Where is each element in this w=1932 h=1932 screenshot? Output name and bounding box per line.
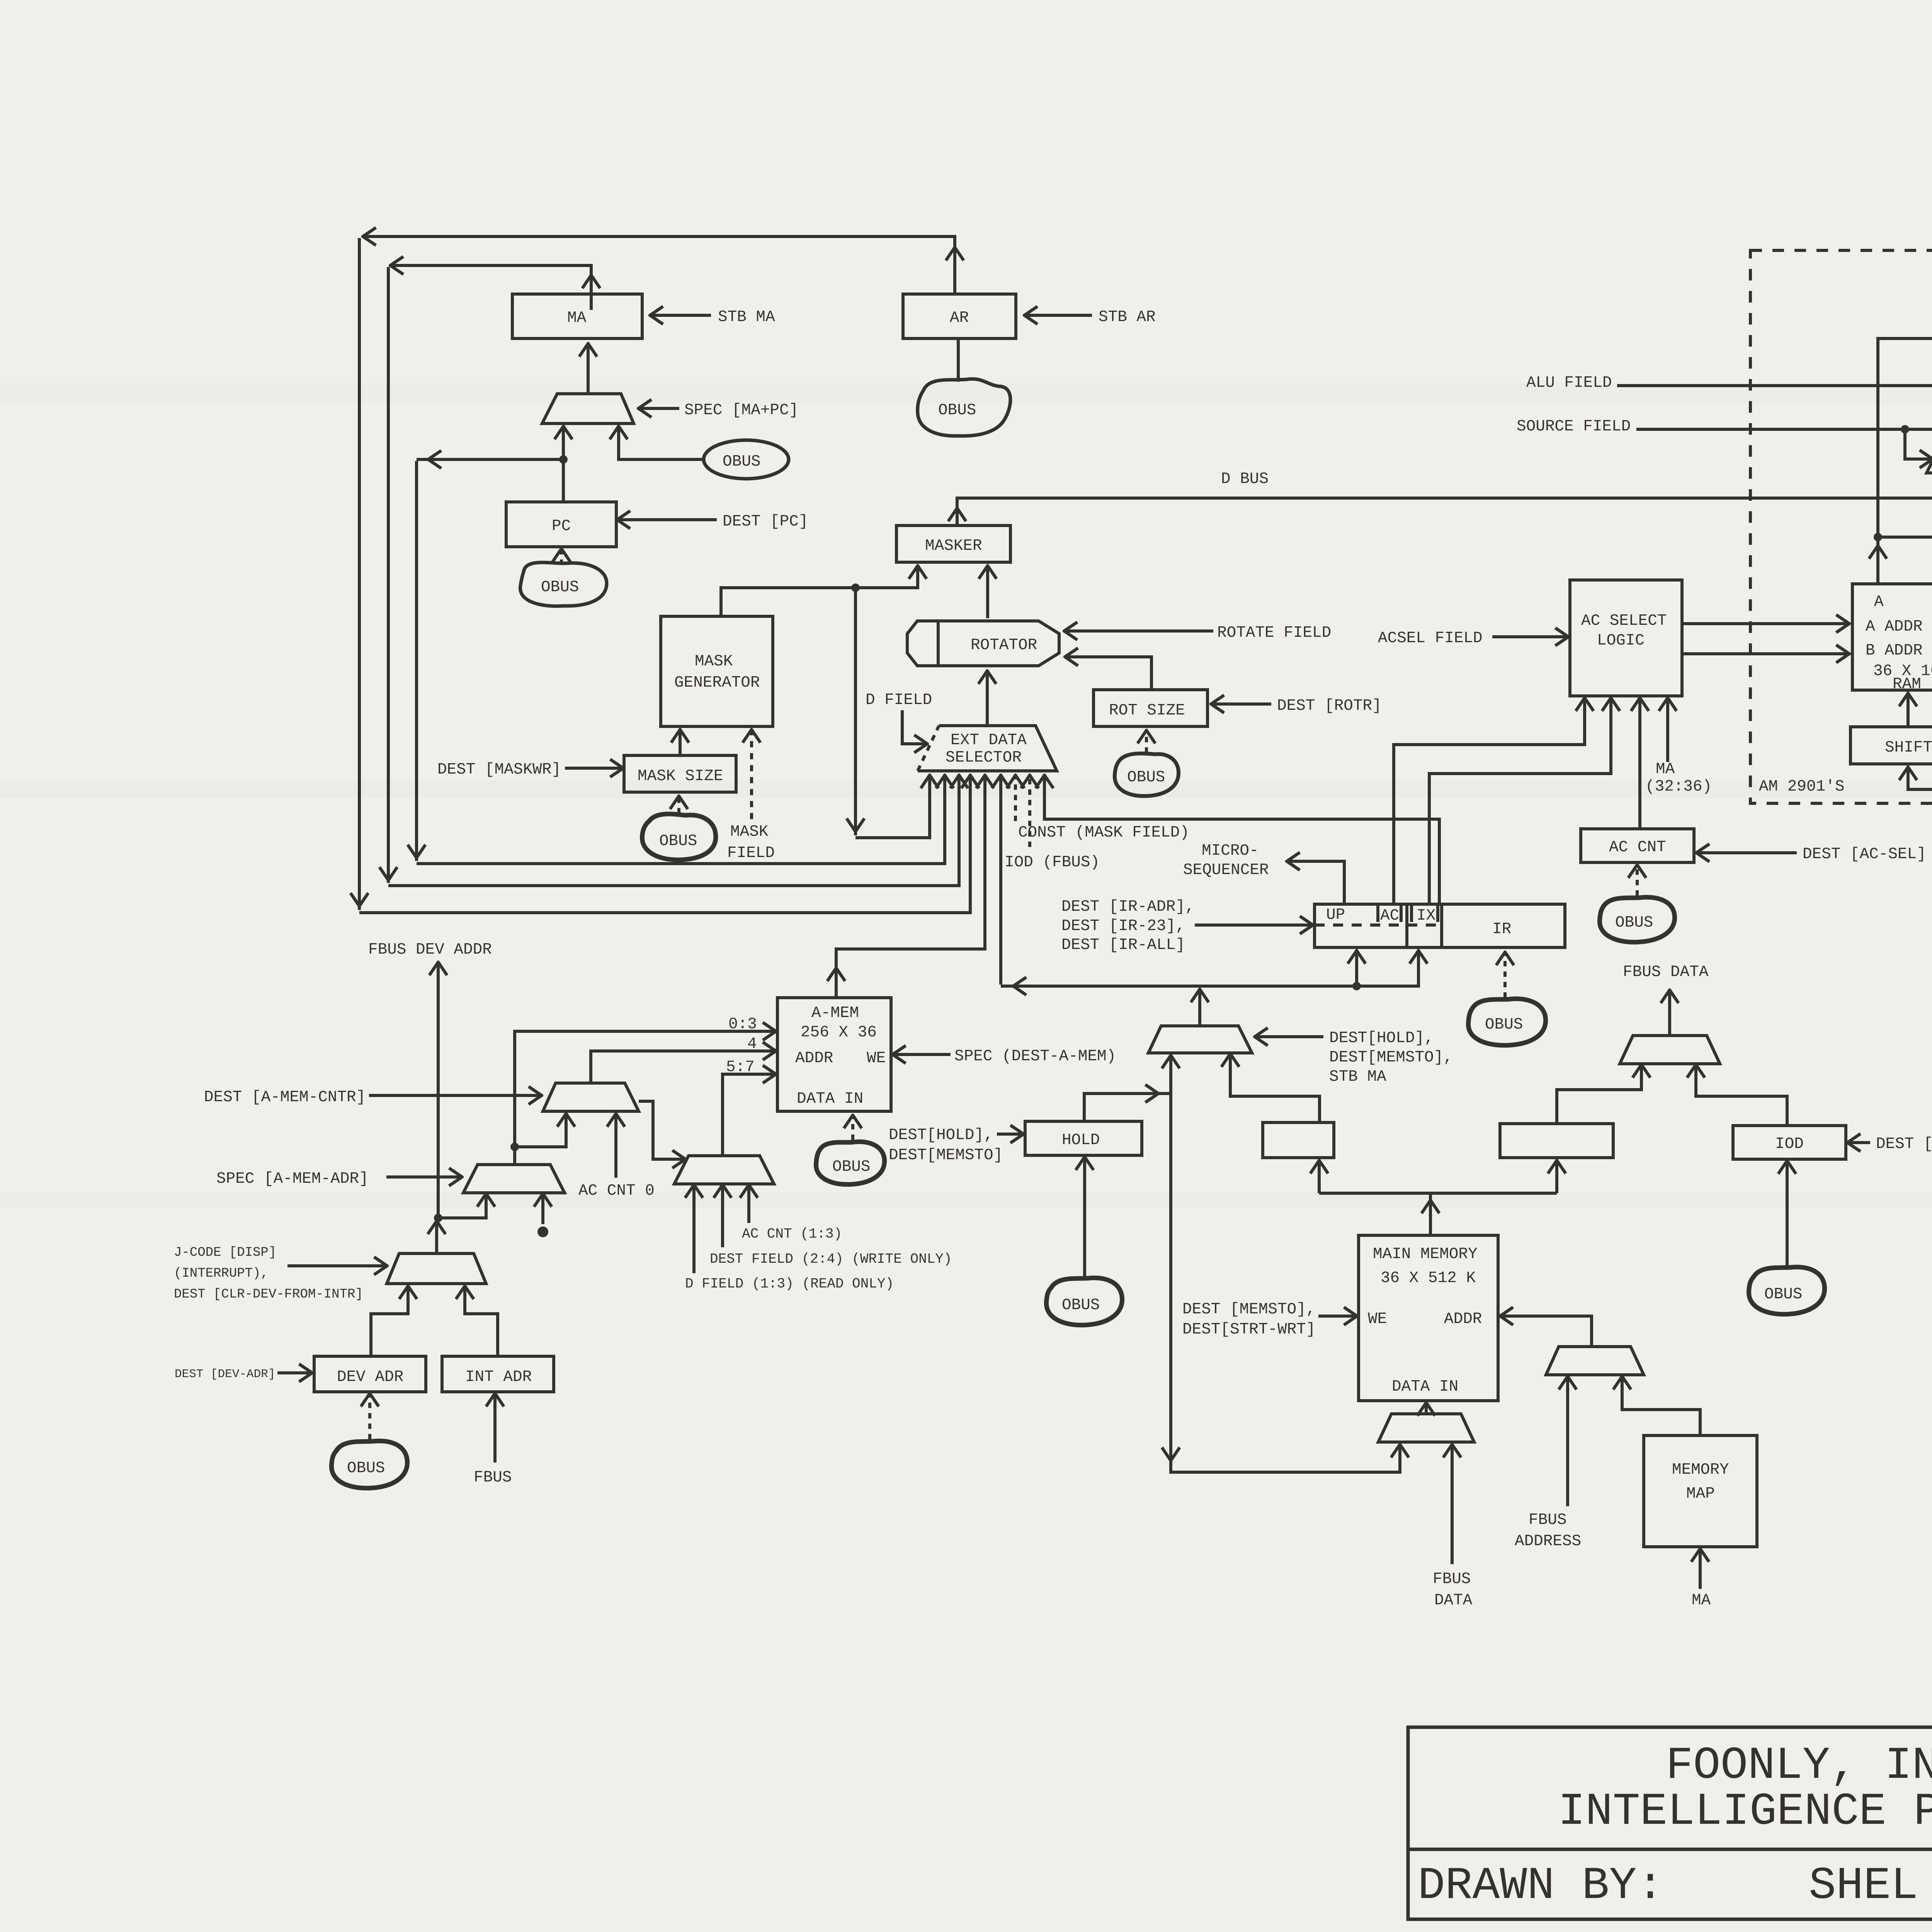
- svg-text:A ADDR: A ADDR: [1866, 618, 1923, 636]
- svg-text:IOD: IOD: [1775, 1135, 1804, 1153]
- register IOD: [1733, 1126, 1846, 1159]
- svg-text:OBUS: OBUS: [832, 1158, 870, 1176]
- wire DEST [AC-SEL]: [1697, 845, 1926, 863]
- wire DEST HOLD MEMSTO STB MA select: [1255, 1029, 1453, 1086]
- wire ROTATOR to MASKER input 2: [986, 566, 989, 618]
- wire AC CNT to AC SELECT LOGIC: [1638, 699, 1641, 829]
- svg-text:DEST [IR-ALL]: DEST [IR-ALL]: [1061, 936, 1185, 954]
- svg-text:MICRO-: MICRO-: [1202, 842, 1259, 860]
- svg-text:B ADDR: B ADDR: [1866, 642, 1923, 660]
- wire OBUS to A-MEM DATA IN dashed: [851, 1116, 854, 1140]
- svg-text:IR: IR: [1492, 920, 1511, 938]
- wire MASK SIZE to MASK GENERATOR: [679, 730, 682, 755]
- register HOLD: [1025, 1121, 1142, 1155]
- wire FBUS ADDRESS stub: [1515, 1377, 1581, 1550]
- wire AR output to top loop: [364, 236, 964, 294]
- register AR: [903, 294, 1016, 338]
- wire OBUS to AC CNT dashed: [1636, 866, 1639, 896]
- svg-text:DATA IN: DATA IN: [1392, 1378, 1458, 1396]
- register MA: [512, 294, 642, 338]
- register PC: [506, 502, 616, 547]
- mux EXT DATA SELECTOR: [918, 726, 1057, 771]
- svg-text:SEQUENCER: SEQUENCER: [1183, 861, 1269, 879]
- node zero constant muxB: [537, 1194, 548, 1237]
- register INT ADR: [442, 1356, 554, 1392]
- wire SOURCE FIELD: [1517, 418, 1932, 459]
- register memory data box1: [1263, 1122, 1334, 1158]
- svg-text:256 X 36: 256 X 36: [801, 1024, 877, 1041]
- boundary AM 2901 dashed box: [1750, 250, 1932, 803]
- svg-text:SPEC [MA+PC]: SPEC [MA+PC]: [684, 401, 798, 419]
- svg-text:AR: AR: [950, 309, 969, 327]
- wire DEST [IOD]: [1848, 1135, 1932, 1153]
- wire MAIN MEMORY output tee: [1319, 1161, 1557, 1235]
- wire PC to mux input 1: [559, 427, 568, 502]
- svg-text:D FIELD: D FIELD: [866, 691, 932, 709]
- svg-text:AC CNT: AC CNT: [1609, 838, 1666, 856]
- svg-text:OBUS: OBUS: [1764, 1286, 1802, 1303]
- svg-text:OBUS: OBUS: [347, 1459, 385, 1477]
- svg-text:CONST (MASK FIELD): CONST (MASK FIELD): [1018, 824, 1189, 842]
- svg-text:FBUS DEV ADDR: FBUS DEV ADDR: [368, 941, 492, 959]
- svg-text:INTELLIGENCE PROJECT: INTELLIGENCE PROJECT: [1558, 1786, 1932, 1838]
- wire box2 to muxF input1: [1557, 1065, 1641, 1124]
- svg-text:A: A: [1874, 593, 1884, 611]
- svg-text:DEST[MEMSTO],: DEST[MEMSTO],: [1329, 1049, 1453, 1066]
- wire FBUS to INT ADR: [474, 1394, 512, 1486]
- register SHIFT left: [1850, 727, 1932, 764]
- memory A-MEM 256x36: [777, 998, 891, 1111]
- svg-text:OBUS: OBUS: [1615, 914, 1653, 932]
- svg-text:DEST [MEMSTO],: DEST [MEMSTO],: [1182, 1301, 1315, 1318]
- node OBUS blob under A-MEM: [816, 1142, 884, 1185]
- wire ROTATE FIELD: [1065, 624, 1331, 642]
- wire MASKER output to D BUS: [948, 470, 1932, 526]
- wire IR IX field to AC SELECT LOGIC: [1429, 699, 1611, 904]
- wire SHIFT to RAM: [1906, 694, 1910, 727]
- wire EXT DATA SELECTOR to ROTATOR: [986, 672, 989, 725]
- svg-text:LOGIC: LOGIC: [1597, 632, 1645, 650]
- wire MA into MEMORY MAP: [1692, 1549, 1711, 1609]
- wire muxB input1 from FBUS DEV ADDR bus: [434, 1194, 486, 1222]
- wire DEST [PC]: [618, 513, 808, 531]
- svg-text:ACSEL FIELD: ACSEL FIELD: [1378, 629, 1483, 647]
- wire D FIELD drop to bus 1: [847, 588, 930, 838]
- svg-text:(INTERRUPT),: (INTERRUPT),: [174, 1266, 269, 1281]
- svg-text:DEST [A-MEM-CNTR]: DEST [A-MEM-CNTR]: [204, 1088, 366, 1106]
- mux H memory data in mux: [1378, 1403, 1474, 1442]
- wire SPEC (DEST-A-MEM): [893, 1048, 1116, 1065]
- svg-text:MASK SIZE: MASK SIZE: [638, 767, 723, 785]
- wire DEV ADR to muxD: [371, 1287, 408, 1356]
- svg-text:36 X 512 K: 36 X 512 K: [1381, 1269, 1476, 1287]
- svg-text:ADDR: ADDR: [795, 1049, 833, 1067]
- svg-text:DRAWN BY:: DRAWN BY:: [1418, 1861, 1664, 1912]
- svg-text:DATA: DATA: [1434, 1592, 1473, 1609]
- svg-text:0:3: 0:3: [728, 1015, 757, 1033]
- svg-text:D BUS: D BUS: [1221, 470, 1269, 488]
- node OBUS blob under HOLD: [1046, 1278, 1122, 1325]
- mux R source mux: [1927, 413, 1932, 473]
- svg-text:OBUS: OBUS: [1127, 769, 1165, 786]
- wire IOD to muxF input2: [1696, 1065, 1787, 1126]
- register IR: [1315, 904, 1565, 947]
- svg-text:DEST [IR-23],: DEST [IR-23],: [1061, 917, 1185, 935]
- wire OBUS to DEV ADR dashed: [368, 1394, 371, 1439]
- svg-text:DEST [AC-SEL]: DEST [AC-SEL]: [1803, 845, 1926, 863]
- register MASK SIZE: [624, 755, 736, 792]
- svg-text:OBUS: OBUS: [659, 832, 697, 850]
- wire DEST MEMSTO write enable: [1182, 1301, 1356, 1338]
- svg-text:AC SELECT: AC SELECT: [1581, 612, 1667, 630]
- svg-text:FOONLY, INC.: FOONLY, INC.: [1666, 1740, 1932, 1792]
- svg-text:OBUS: OBUS: [1062, 1296, 1100, 1314]
- svg-text:DEV ADR: DEV ADR: [337, 1368, 403, 1386]
- svg-text:5:7: 5:7: [726, 1058, 755, 1076]
- wire OBUS to ROT SIZE dashed: [1145, 731, 1148, 753]
- wire A bus horizontal: [1878, 536, 1932, 539]
- wire MA (32:36) stub: [1645, 699, 1712, 796]
- register MASKER: [896, 526, 1010, 562]
- svg-text:(32:36): (32:36): [1645, 778, 1712, 796]
- block AC SELECT LOGIC: [1570, 580, 1682, 696]
- title text DRAWN BY: [1418, 1861, 1664, 1912]
- mux F FBUS data mux: [1620, 963, 1720, 1064]
- svg-text:DEST[HOLD],: DEST[HOLD],: [1329, 1029, 1434, 1047]
- svg-text:FBUS: FBUS: [1433, 1570, 1471, 1588]
- svg-text:OBUS: OBUS: [723, 453, 760, 471]
- wire IR IX field to selector input 9: [1044, 776, 1439, 904]
- svg-text:WE: WE: [1368, 1310, 1387, 1328]
- svg-text:WE: WE: [867, 1049, 886, 1067]
- svg-text:DEST[MEMSTO]: DEST[MEMSTO]: [889, 1146, 1003, 1164]
- mux A-MEM 5:7 mux: [674, 1156, 774, 1184]
- wire left bus PC feedback down: [408, 461, 945, 864]
- wire AC CNT 0 stub: [578, 1114, 655, 1200]
- node OBUS blob under AR: [918, 338, 1010, 436]
- svg-text:SOURCE FIELD: SOURCE FIELD: [1517, 418, 1631, 435]
- wire STB AR: [1025, 308, 1156, 326]
- svg-text:FIELD: FIELD: [727, 844, 775, 862]
- svg-text:DEST FIELD (2:4) (WRITE ONLY): DEST FIELD (2:4) (WRITE ONLY): [710, 1251, 952, 1267]
- wire A-MEM output to selector input 5: [827, 776, 985, 998]
- wire muxG to ADDR: [1501, 1316, 1592, 1347]
- wire CONST stub dashed: [1015, 776, 1189, 842]
- mux G memory address mux: [1546, 1347, 1644, 1375]
- svg-text:MAIN MEMORY: MAIN MEMORY: [1373, 1245, 1478, 1263]
- svg-text:SHEL KAPHAN: SHEL KAPHAN: [1809, 1861, 1932, 1912]
- wire MASK GENERATOR to MASKER input 1: [721, 566, 918, 616]
- register AC CNT: [1581, 829, 1694, 862]
- node OBUS blob under DEV ADR: [332, 1441, 407, 1488]
- svg-text:ROTATOR: ROTATOR: [971, 636, 1037, 654]
- wire IR AC field to AC SELECT LOGIC: [1394, 699, 1585, 904]
- svg-text:DEST [ROTR]: DEST [ROTR]: [1277, 697, 1382, 715]
- svg-text:D FIELD (1:3) (READ ONLY): D FIELD (1:3) (READ ONLY): [685, 1276, 894, 1292]
- svg-text:GENERATOR: GENERATOR: [674, 674, 760, 692]
- wire PC tap to left bus: [417, 451, 563, 468]
- svg-text:ADDRESS: ADDRESS: [1515, 1532, 1581, 1550]
- wire DEST FIELD (2:4) stub: [710, 1185, 952, 1267]
- wire muxA select to muxC: [639, 1101, 685, 1159]
- svg-text:DEST [PC]: DEST [PC]: [723, 513, 808, 531]
- svg-text:DEST [IR-ADR],: DEST [IR-ADR],: [1061, 898, 1194, 916]
- wire OBUS to MASK SIZE dashed: [677, 797, 680, 813]
- wire STB MA: [651, 308, 775, 326]
- memory MAIN MEMORY: [1359, 1235, 1498, 1401]
- svg-text:MA: MA: [1656, 760, 1675, 778]
- memory RAM 36x16: [1852, 584, 1932, 693]
- svg-text:ROT SIZE: ROT SIZE: [1109, 702, 1185, 719]
- wire HOLD tap down to muxH: [1162, 1094, 1400, 1472]
- svg-text:INT ADR: INT ADR: [465, 1368, 532, 1386]
- svg-text:IX: IX: [1417, 907, 1435, 925]
- svg-text:MA: MA: [1692, 1592, 1711, 1609]
- svg-text:PC: PC: [552, 517, 571, 535]
- wire result bus to IR inputs: [1001, 951, 1418, 990]
- svg-text:IOD (FBUS): IOD (FBUS): [1005, 854, 1100, 871]
- wire selector input 6 from result bus: [1001, 776, 1026, 995]
- svg-text:ALU FIELD: ALU FIELD: [1526, 374, 1612, 392]
- title block border: [1408, 1727, 1932, 1919]
- wire RAM A riser lower: [1869, 533, 1887, 584]
- register ROT SIZE: [1094, 690, 1207, 726]
- mux SPEC MA+PC: [542, 394, 634, 423]
- wire left bus AR feedback down: [350, 238, 970, 913]
- wire RAM A to output mux: [1878, 311, 1932, 537]
- wire ROT SIZE to ROTATOR: [1066, 657, 1151, 690]
- wire J-CODE select: [174, 1245, 386, 1302]
- svg-text:OBUS: OBUS: [541, 578, 579, 596]
- svg-text:A-MEM: A-MEM: [811, 1004, 859, 1022]
- wire FBUS DEV ADDR: [368, 941, 492, 1218]
- wire FBUS DATA stub into muxH: [1433, 1445, 1473, 1609]
- node OBUS ellipse at MA mux: [704, 440, 789, 479]
- svg-text:OBUS: OBUS: [938, 401, 976, 419]
- svg-text:RAM: RAM: [1893, 675, 1921, 693]
- svg-text:DEST[HOLD],: DEST[HOLD],: [889, 1126, 993, 1144]
- wire left bus MA feedback down: [379, 267, 959, 886]
- node OBUS blob under ROT SIZE: [1115, 753, 1179, 796]
- register DEV ADR: [314, 1356, 426, 1392]
- wire ALU FIELD: [1526, 374, 1932, 392]
- mux A-MEM write counter mux: [543, 1083, 639, 1111]
- svg-text:DEST[STRT-WRT]: DEST[STRT-WRT]: [1182, 1321, 1315, 1338]
- svg-text:DEST [MASKWR]: DEST [MASKWR]: [437, 761, 561, 779]
- wire SPEC [MA+PC]: [639, 401, 798, 419]
- title text SHEL KAPHAN: [1809, 1861, 1932, 1912]
- wire DEST [MASKWR]: [437, 761, 622, 779]
- wire B address to RAM: [1682, 652, 1849, 655]
- svg-text:STB MA: STB MA: [1329, 1068, 1386, 1086]
- block ROTATOR: [907, 621, 1059, 666]
- wire muxB out to muxA input1: [515, 1114, 566, 1147]
- wire MEMORY MAP to muxG: [1622, 1377, 1700, 1435]
- wire IOD stub dashed: [1005, 776, 1100, 871]
- block MEMORY MAP: [1644, 1435, 1757, 1547]
- svg-text:AC CNT (1:3): AC CNT (1:3): [742, 1226, 842, 1242]
- svg-text:STB AR: STB AR: [1099, 308, 1156, 326]
- wire DEST [ROTR]: [1212, 697, 1382, 715]
- svg-text:OBUS: OBUS: [1485, 1016, 1523, 1034]
- wire OBUS to PC dashed: [560, 549, 563, 565]
- svg-text:HOLD: HOLD: [1062, 1131, 1100, 1149]
- svg-text:STB MA: STB MA: [718, 308, 775, 326]
- title text FOONLY INC: [1666, 1740, 1932, 1792]
- wire OBUS to IR dashed: [1503, 953, 1507, 998]
- svg-text:SELECTOR: SELECTOR: [946, 749, 1022, 767]
- node OBUS blob under MASK SIZE: [642, 814, 716, 860]
- wire D FIELD select: [866, 691, 932, 744]
- svg-text:4: 4: [747, 1035, 757, 1053]
- wire HOLD to muxE input1: [1084, 1056, 1171, 1121]
- node OBUS blob under AC CNT: [1600, 897, 1675, 942]
- svg-text:AC: AC: [1380, 907, 1399, 925]
- svg-text:MASKER: MASKER: [925, 537, 982, 555]
- svg-text:FBUS DATA: FBUS DATA: [1623, 963, 1709, 981]
- label DEST HOLD MEMSTO left: [889, 1126, 1003, 1164]
- wire DEST [A-MEM-CNTR]: [204, 1088, 541, 1106]
- block MASK GENERATOR: [661, 616, 773, 726]
- wire OBUS to IOD: [1786, 1162, 1789, 1266]
- mux E store mux: [1148, 990, 1252, 1053]
- mux A-MEM address mux: [463, 1165, 565, 1193]
- wire INT ADR to muxD: [465, 1287, 498, 1356]
- svg-text:DEST [IOD]: DEST [IOD]: [1876, 1135, 1932, 1153]
- svg-text:MA: MA: [567, 309, 587, 327]
- svg-text:MEMORY: MEMORY: [1672, 1461, 1729, 1479]
- wire D FIELD (1:3) stub: [685, 1185, 894, 1292]
- wire mux to MA: [587, 344, 590, 394]
- svg-text:SHIFT: SHIFT: [1885, 739, 1932, 757]
- wire DEST [DEV-ADR]: [175, 1367, 311, 1381]
- node OBUS blob under IR: [1468, 999, 1546, 1046]
- register memory data box2: [1500, 1124, 1613, 1158]
- wire OBUS to HOLD: [1083, 1158, 1086, 1277]
- svg-text:SPEC (DEST-A-MEM): SPEC (DEST-A-MEM): [954, 1048, 1116, 1065]
- svg-text:DEST [CLR-DEV-FROM-INTR]: DEST [CLR-DEV-FROM-INTR]: [174, 1287, 363, 1302]
- wire MICRO-SEQUENCER from IR UP field: [1183, 842, 1344, 904]
- mux device address mux: [387, 1222, 486, 1284]
- svg-text:MASK: MASK: [730, 823, 769, 841]
- svg-text:DATA IN: DATA IN: [797, 1090, 863, 1108]
- node OBUS blob under IOD: [1749, 1267, 1825, 1314]
- title text INTELLIGENCE PROJECT: [1558, 1786, 1932, 1838]
- svg-text:FBUS: FBUS: [1529, 1511, 1566, 1529]
- svg-text:AM 2901'S: AM 2901'S: [1759, 778, 1844, 796]
- wire MASK FIELD stub: [727, 730, 775, 862]
- wire A address to RAM: [1682, 622, 1849, 625]
- wire ACSEL FIELD: [1378, 629, 1568, 647]
- wire SPEC [A-MEM-ADR]: [216, 1170, 461, 1188]
- wire DEST IR fields: [1061, 898, 1312, 954]
- wire OBUS to mux input 2: [619, 427, 704, 459]
- node OBUS blob under PC: [520, 563, 607, 606]
- svg-text:ROTATE FIELD: ROTATE FIELD: [1217, 624, 1331, 642]
- wire addr 4: [591, 1035, 775, 1083]
- wire DEST HOLD into HOLD: [997, 1133, 1023, 1136]
- svg-text:FBUS: FBUS: [474, 1469, 512, 1486]
- svg-text:MASK: MASK: [695, 653, 733, 670]
- svg-text:DEST [DEV-ADR]: DEST [DEV-ADR]: [175, 1367, 275, 1381]
- svg-text:ADDR: ADDR: [1444, 1310, 1482, 1328]
- svg-text:MAP: MAP: [1686, 1485, 1715, 1503]
- svg-text:SPEC [A-MEM-ADR]: SPEC [A-MEM-ADR]: [216, 1170, 369, 1188]
- svg-text:AC CNT 0: AC CNT 0: [578, 1182, 655, 1200]
- wire box1 to muxE input2: [1230, 1054, 1320, 1122]
- wire AC CNT (1:3) stub: [742, 1185, 842, 1242]
- wire MA output loop to left bus: [391, 265, 600, 310]
- wire addr 0:3: [510, 1015, 775, 1165]
- svg-text:UP: UP: [1326, 906, 1345, 924]
- wire right feedback bus: [1908, 341, 1932, 789]
- svg-text:J-CODE [DISP]: J-CODE [DISP]: [174, 1245, 276, 1260]
- svg-text:EXT DATA: EXT DATA: [951, 731, 1027, 749]
- wire addr 5:7: [723, 1058, 775, 1156]
